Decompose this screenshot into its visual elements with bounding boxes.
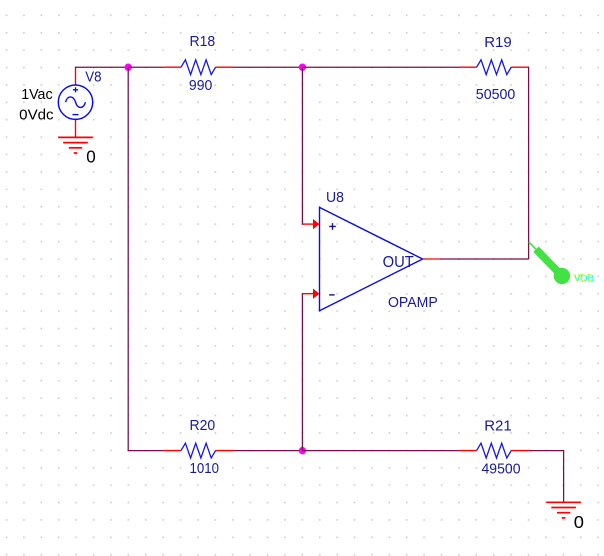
probe VDB [529,242,570,284]
resistor R20 [163,443,233,458]
probe label VDB [573,273,594,285]
wire R21 to ground [529,451,564,502]
junction node C [299,447,306,454]
svg-text:0: 0 [574,512,584,532]
wire op-amp output to feedback node [440,258,528,260]
ground symbol 0 (left) [58,137,93,153]
resistor R21 [459,443,529,458]
svg-text:0: 0 [86,147,96,167]
svg-text:R18: R18 [190,33,216,50]
wire R19 to feedback node (output) [528,67,530,259]
ground symbol 0 (right) [546,502,581,518]
svg-text:1Vac: 1Vac [21,87,52,103]
wire node B to R19 [302,66,459,68]
voltage source V8 [58,67,92,137]
svg-text:R20: R20 [190,417,216,434]
svg-text:0Vdc: 0Vdc [19,108,53,124]
op-amp U8 [303,207,440,310]
svg-text:V8: V8 [85,69,101,86]
svg-text:1010: 1010 [190,460,220,477]
svg-text:OUT: OUT [383,254,414,271]
svg-text:OPAMP: OPAMP [388,294,438,311]
svg-text:49500: 49500 [482,460,521,477]
svg-text:VDB: VDB [573,273,593,284]
junction node B [299,63,306,70]
resistor R18 [163,60,233,75]
wire R20 to node C [233,450,302,452]
wire node A to R18 [128,66,163,68]
wire V8 top to node A [76,66,129,69]
wire node A down to R20 (left branch) [128,67,163,450]
wire node B to op-amp noninverting input [301,67,304,224]
svg-text:R21: R21 [484,418,512,435]
resistor R19 [459,60,529,75]
wire node C to R21 [302,450,459,452]
wire R18 to node B [233,66,302,68]
wire node C to op-amp inverting input [301,294,304,451]
svg-text:R19: R19 [484,34,512,51]
svg-text:50500: 50500 [476,86,516,103]
svg-text:990: 990 [189,77,212,94]
svg-text:U8: U8 [326,189,344,206]
junction node A [125,63,132,70]
